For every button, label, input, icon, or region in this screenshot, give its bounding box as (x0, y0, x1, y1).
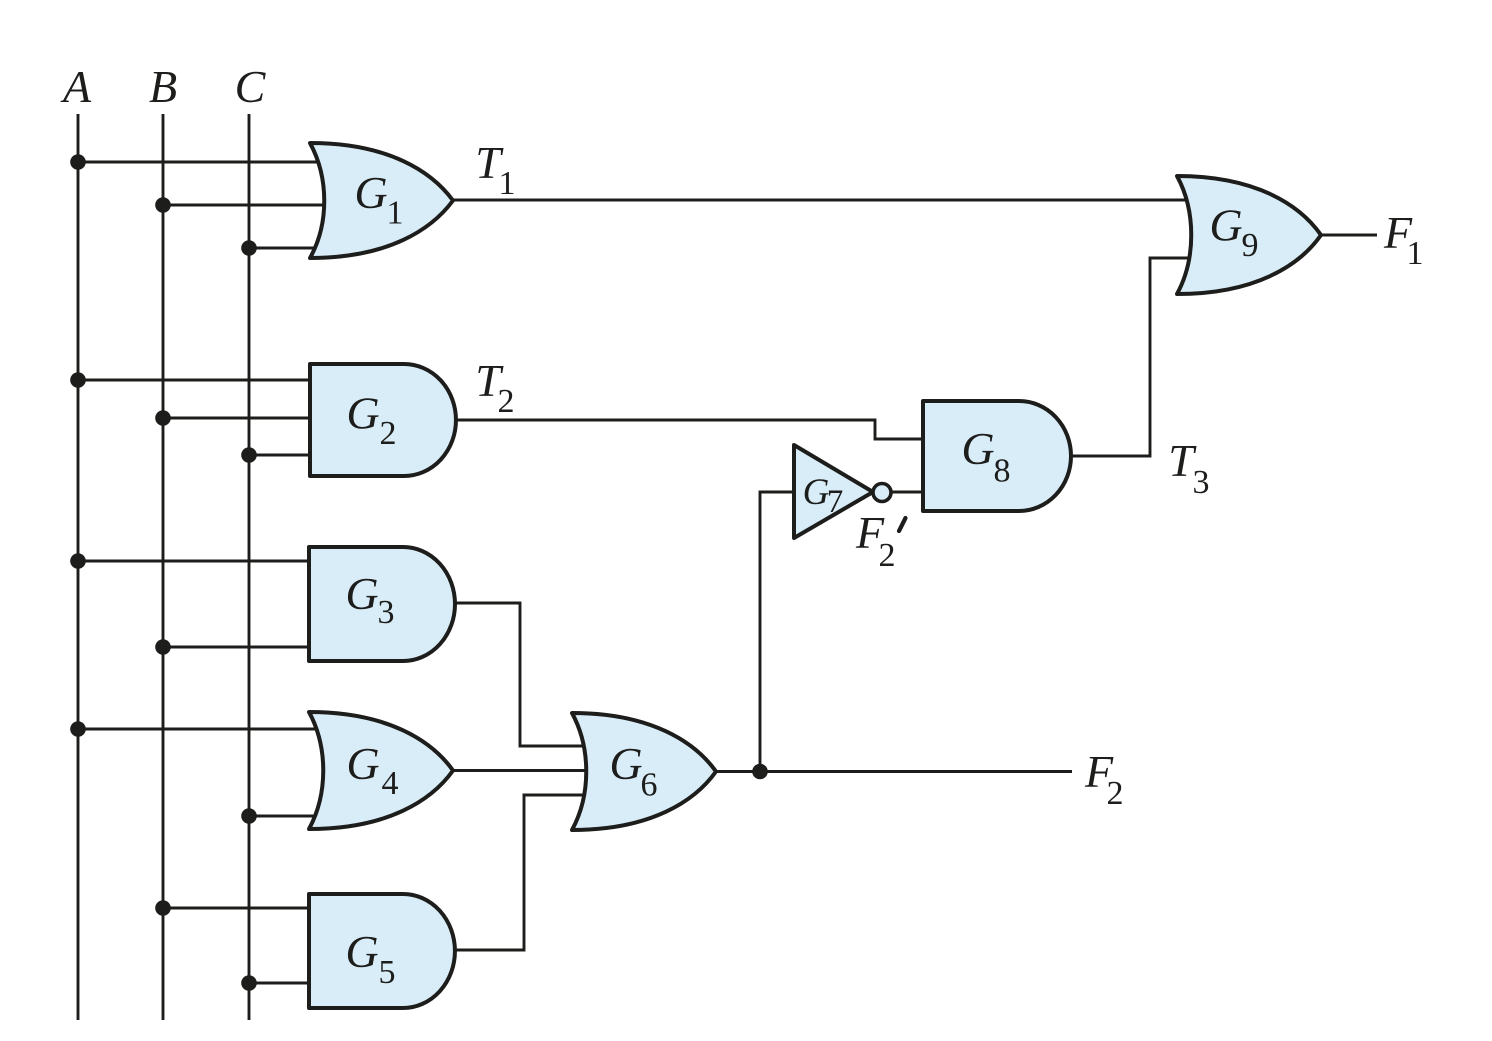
svg-text:5: 5 (379, 954, 396, 991)
svg-text:C: C (235, 61, 267, 112)
svg-text:G: G (354, 167, 387, 218)
svg-text:A: A (60, 61, 92, 112)
svg-text:2: 2 (1107, 775, 1124, 812)
svg-text:G: G (961, 423, 994, 474)
svg-text:9: 9 (1242, 227, 1259, 264)
svg-text:3: 3 (378, 594, 395, 631)
svg-text:1: 1 (387, 195, 404, 232)
svg-text:G: G (345, 568, 378, 619)
svg-text:1: 1 (499, 165, 516, 202)
svg-text:2: 2 (879, 537, 896, 574)
svg-text:1: 1 (1407, 235, 1424, 272)
svg-text:G: G (1209, 200, 1242, 251)
svg-text:G: G (609, 738, 642, 789)
svg-text:6: 6 (641, 767, 658, 804)
svg-text:2: 2 (380, 415, 397, 452)
svg-text:2: 2 (498, 383, 515, 420)
svg-text:G: G (346, 388, 379, 439)
svg-text:G: G (346, 738, 379, 789)
svg-text:B: B (149, 61, 177, 112)
svg-text:4: 4 (382, 765, 399, 802)
svg-text:G: G (345, 926, 378, 977)
svg-text:8: 8 (994, 453, 1011, 490)
svg-text:G: G (803, 472, 830, 513)
svg-text:7: 7 (827, 484, 844, 520)
svg-text:3: 3 (1193, 464, 1210, 501)
